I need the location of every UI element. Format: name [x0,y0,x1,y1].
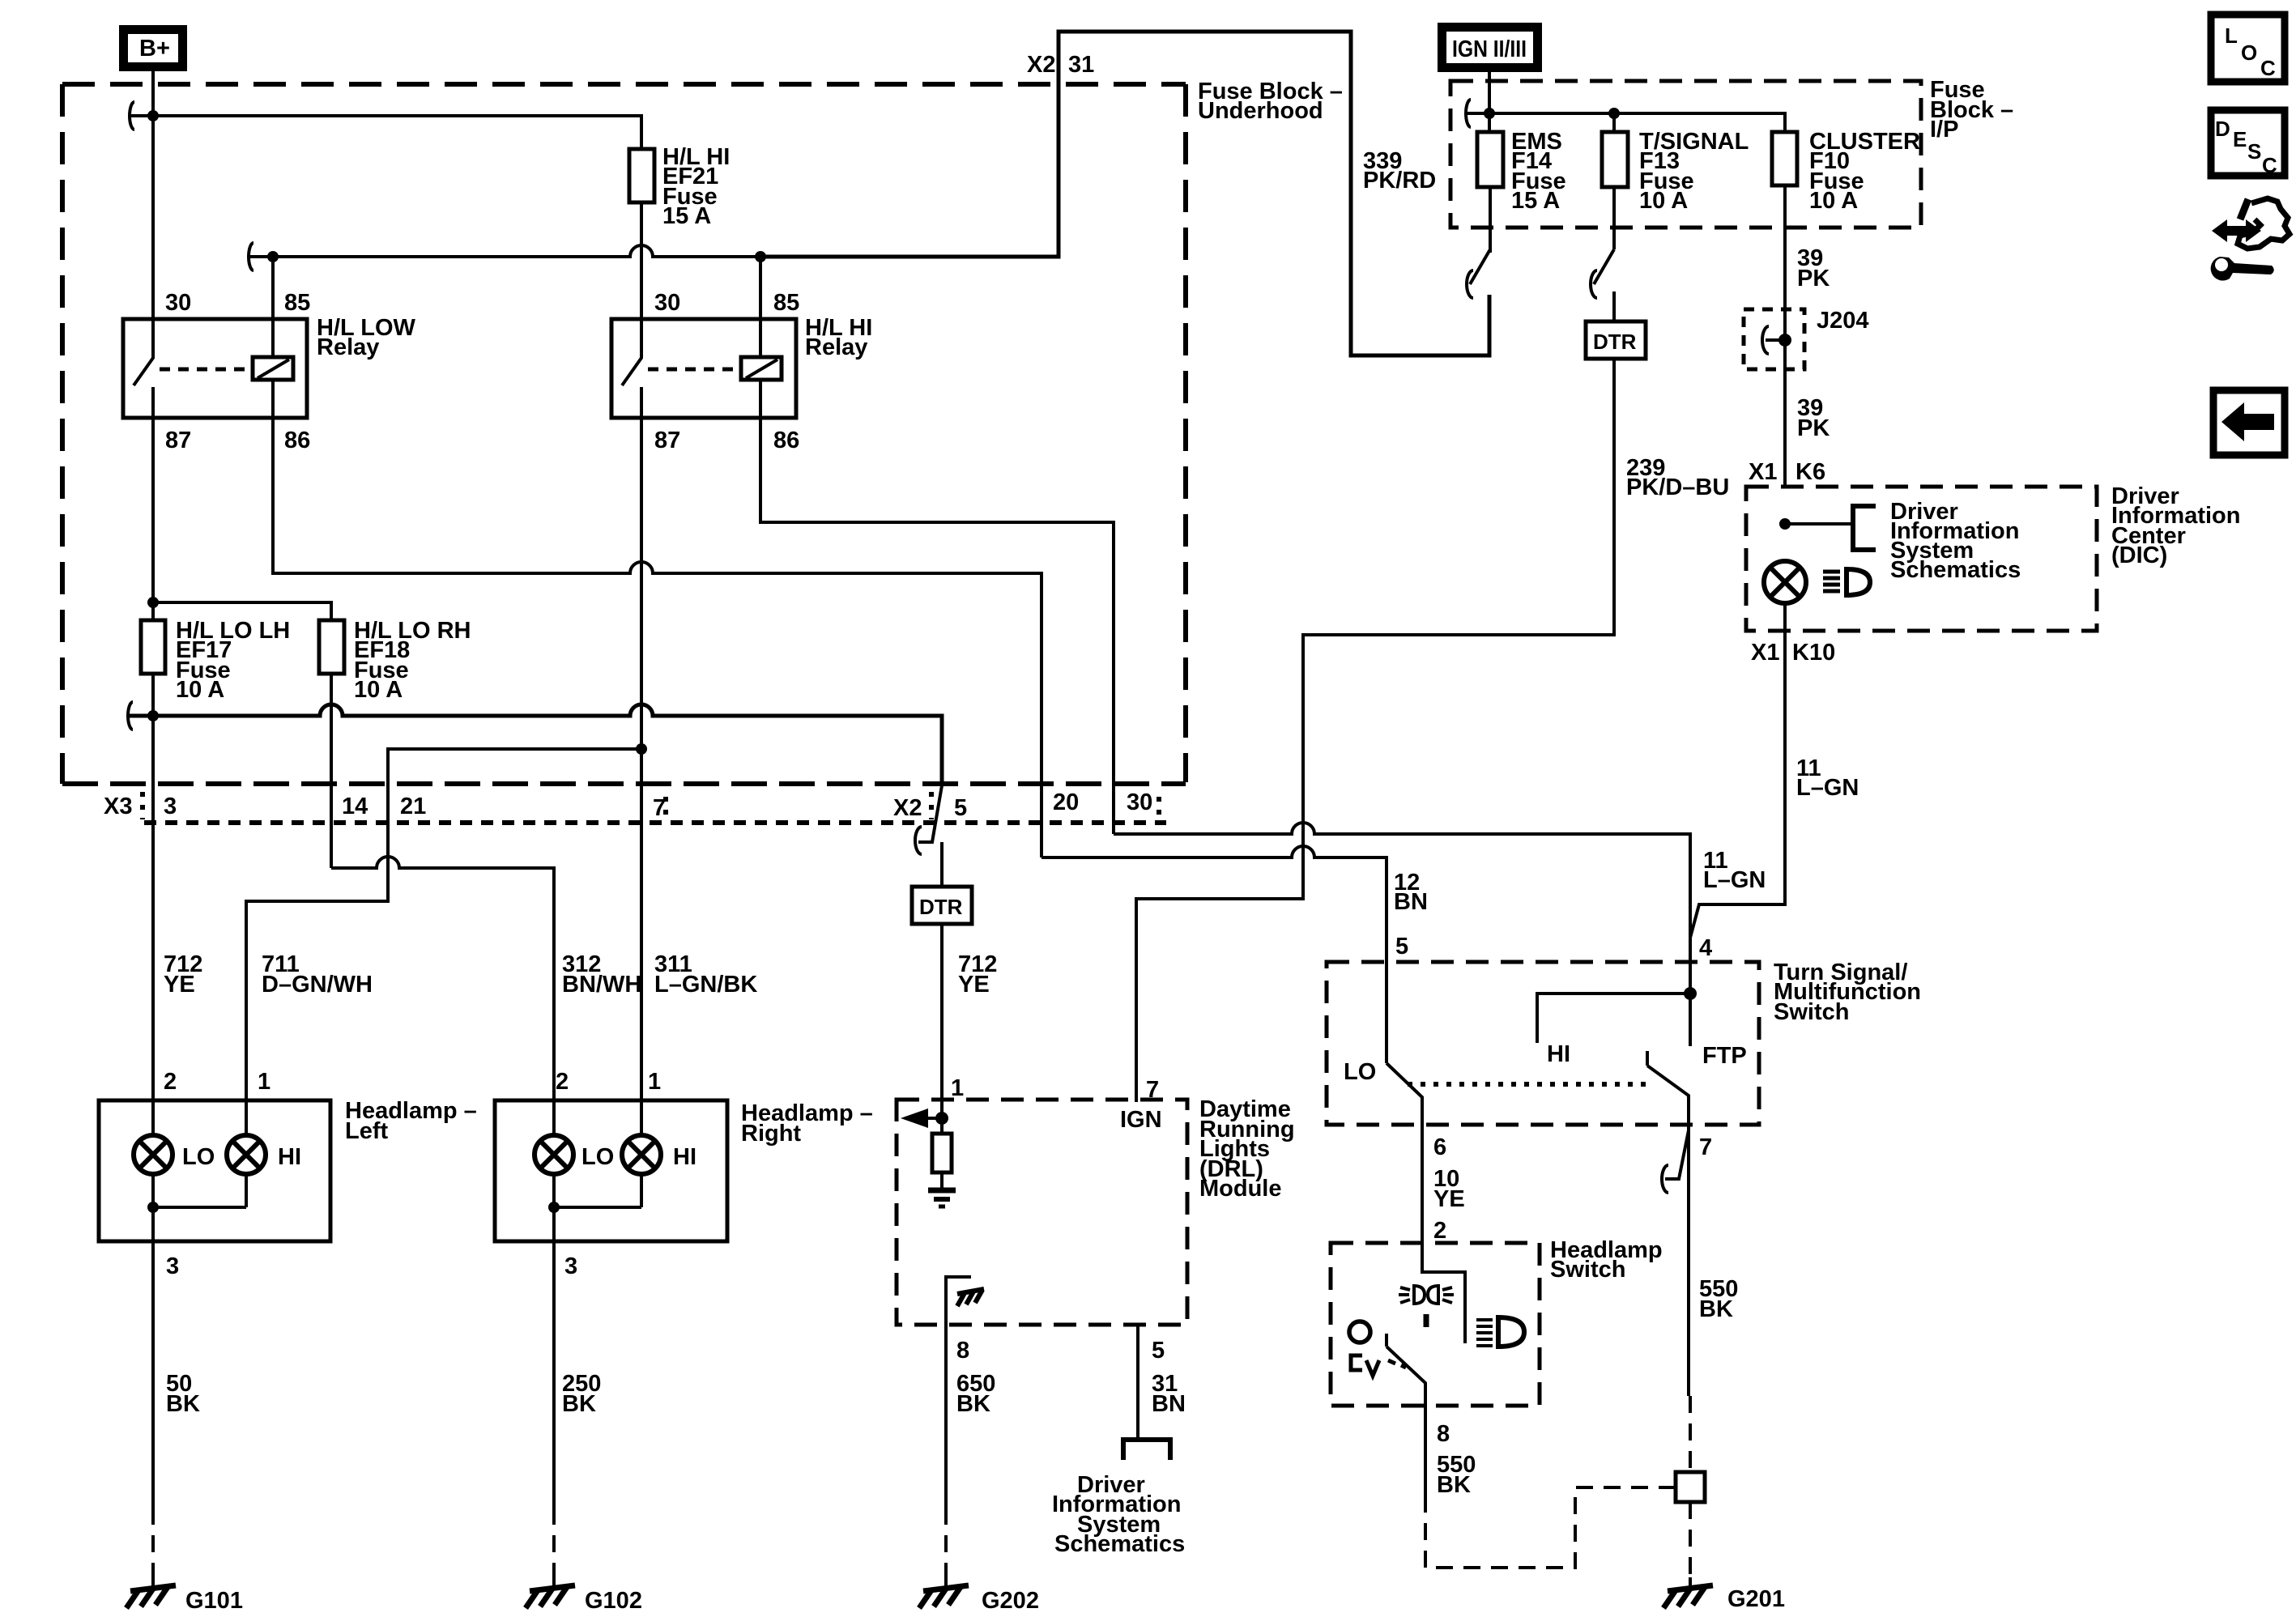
wire 11 L-GN K10 down to turn signal feed [1690,631,1785,938]
svg-text:Schematics: Schematics [1054,1531,1185,1557]
node DIC feed branch [1779,518,1791,530]
mechanical link dashes HL switch [1388,1360,1406,1368]
svg-text:5: 5 [954,795,967,821]
relay H/L LOW coil [253,319,293,418]
wire 250 BK to G102 [552,1207,556,1508]
label relay H/L HI [805,315,872,360]
label relay H/L LOW [317,315,416,360]
dashed wire 550 BK to splice [1425,1487,1676,1568]
relay H/L LOW link dashes [160,368,253,372]
wire headlamp left lamp commons [153,1174,246,1207]
lamp DIC high beam indicator [1764,561,1806,603]
label Turn Signal/Multifunction Switch [1774,960,1921,1025]
fuse F13 [1602,132,1628,187]
svg-text:L–GN: L–GN [1703,867,1766,893]
svg-text:8: 8 [1437,1421,1450,1447]
connector cell separator X3 [140,792,145,819]
dashed wire splice to G201 [1689,1502,1692,1577]
svg-text:86: 86 [284,428,310,453]
label wire 711 D-GN/WH [262,951,373,998]
label X2 row pins [893,789,1152,821]
wire headlamp right lamp commons [554,1174,641,1207]
relay H/L HI switch blade [622,319,641,418]
svg-text:X3: X3 [104,794,132,819]
label connector X1 K10 [1751,640,1835,666]
resistor DRL internal [932,1118,952,1172]
label Headlamp Switch [1550,1237,1663,1283]
wire relay LOW 87 to EF17 [151,418,155,620]
svg-text:87: 87 [654,428,680,453]
svg-text:B+: B+ [139,36,170,62]
svg-text:5: 5 [1395,934,1408,960]
fuse F14 [1477,132,1503,187]
svg-text:PK/D–BU: PK/D–BU [1626,474,1729,500]
ground G201 [1663,1577,1785,1612]
icon DESC button [2211,110,2285,177]
hook connector on IGN bus [1466,100,1471,127]
wire jumper to EF18 [153,602,331,620]
svg-text:5: 5 [1152,1338,1165,1364]
svg-text:14: 14 [342,794,368,819]
node B+ bus junction [147,110,159,121]
relay H/L HI link dashes [648,368,741,372]
svg-text:BK: BK [166,1391,200,1417]
label wire 31 BN [1152,1371,1186,1417]
svg-text:8: 8 [956,1338,969,1364]
node EF17 top jumper [147,597,159,608]
wire F13 output to DTR [1612,187,1616,249]
svg-text:1: 1 [951,1075,964,1101]
label wire 50 BK [166,1371,200,1417]
svg-text:2: 2 [556,1069,569,1095]
wire 50 BK to G101 [151,1207,155,1508]
label wire 550 BK left [1437,1452,1476,1498]
label Driver Information Center (DIC) [2111,483,2241,568]
label fuse EF18 [354,618,471,703]
svg-text:LO: LO [581,1144,614,1170]
svg-text:X1: X1 [1751,640,1779,666]
wire DTR to DRL pin 1 [940,924,944,1121]
svg-text:YE: YE [958,972,990,998]
svg-text:BK: BK [562,1391,596,1417]
svg-text:Switch: Switch [1774,999,1849,1025]
svg-text:X2: X2 [893,795,922,821]
label relay HI pins [654,290,799,453]
svg-text:HI: HI [673,1144,696,1170]
wire HL switch pin 8 550 BK [1424,1406,1427,1496]
wire relay LOW 86 to X2-20 [273,418,1042,857]
svg-text:PK: PK [1797,266,1830,291]
wire DIC branch to DIS bracket [1785,522,1853,526]
DIC dashed box [1746,487,2097,631]
contact O (off position) [1349,1321,1370,1343]
svg-text:10 A: 10 A [176,677,224,703]
label wire 39 PK upper [1797,245,1830,291]
switch blade FTP [1647,1051,1689,1396]
label fuse F13 T/SIGNAL [1639,129,1749,214]
wire HI 87 branch to headlamp left HI [246,749,641,1136]
svg-text:PK: PK [1797,415,1830,441]
label headlamp left pins [164,1069,270,1279]
svg-text:1: 1 [648,1069,661,1095]
B+ power symbol [124,30,183,67]
svg-text:Module: Module [1199,1176,1282,1202]
svg-text:G202: G202 [982,1588,1039,1614]
hook connector on B+ bus [130,102,134,130]
svg-text:IGN: IGN [1120,1107,1162,1133]
connector row upper dashed line [62,781,1186,786]
svg-text:1: 1 [258,1069,270,1095]
svg-text:10 A: 10 A [1809,188,1858,214]
svg-text:3: 3 [564,1253,577,1279]
lamp headlamp right HI [622,1135,696,1174]
svg-text:S: S [2247,139,2261,164]
svg-text:K10: K10 [1792,640,1835,666]
in-line connector jog at X2-5 [915,785,942,854]
ground G101 [126,1577,243,1614]
svg-text:Switch: Switch [1550,1257,1625,1283]
label wire 250 BK [562,1371,601,1417]
svg-text:O: O [2241,40,2257,65]
svg-text:YE: YE [1433,1186,1465,1212]
label fuse EF21 [662,144,730,229]
svg-text:15 A: 15 A [1511,188,1560,214]
label Fuse Block - I/P [1930,77,2013,143]
wire 31 BN off-page [1136,1325,1139,1440]
wire X2-30 to TS switch pin 4 with hop [1114,823,1690,1046]
ground G102 [526,1577,642,1614]
fuse F10 [1772,132,1797,185]
svg-text:BN: BN [1394,889,1428,915]
svg-text:Relay: Relay [317,334,379,360]
svg-text:Left: Left [345,1118,389,1144]
label connector X2 31 [1027,52,1094,78]
svg-text:3: 3 [166,1253,179,1279]
bracket Driver Information System [1853,506,1876,550]
wire 239 PK/D-BU DTR to DRL pin 7 [1136,359,1614,1102]
connector cell separator after 30 [1157,797,1161,823]
wire X2-20 to TS switch pin 5 with hop [1042,846,1387,1063]
svg-text:C: C [2260,56,2276,80]
node HI 87 branch [636,743,647,755]
connector row lower dashed line [144,820,1166,825]
relay H/L HI box [611,319,796,418]
node IGN bus at F13 [1608,108,1620,119]
headlamp right box [495,1100,727,1241]
svg-text:YE: YE [164,972,195,998]
in-line connector jog under F14 [1467,249,1490,298]
DRL module dashed box [897,1100,1187,1325]
splice J204 [1762,311,1791,487]
svg-text:86: 86 [773,428,799,453]
label wire 11 L-GN right [1796,755,1859,801]
svg-text:BN/WH: BN/WH [562,972,641,998]
connector cell separator after 7 [663,797,668,823]
svg-text:10 A: 10 A [1639,188,1688,214]
contact tick parking position [1424,1314,1429,1327]
turn signal / multifunction switch dashed box [1327,962,1759,1125]
wire 650 BK to G202 [944,1325,948,1508]
svg-text:IGN II/III: IGN II/III [1452,36,1527,62]
svg-text:BK: BK [1699,1296,1733,1322]
wire IGN II/III drop [1488,67,1491,132]
wire F10 output [1783,185,1787,311]
wire B+ bus to fuse EF21 [131,116,641,149]
label fuse F10 CLUSTER [1809,129,1920,214]
svg-text:20: 20 [1053,789,1079,815]
svg-text:21: 21 [400,794,426,819]
switch blade HL [1387,1334,1425,1406]
svg-text:L–GN/BK: L–GN/BK [654,972,757,998]
DTR box (T/SIGNAL) [1586,321,1646,359]
svg-text:BK: BK [1437,1472,1471,1498]
label Daytime Running Lights (DRL) Module [1199,1096,1295,1202]
label wire 712 YE (center) [958,951,997,998]
svg-text:87: 87 [165,428,191,453]
label Driver Information System Schematics (DIC) [1890,499,2021,583]
svg-text:2: 2 [164,1069,177,1095]
hook connector on relay coil bus [249,243,253,270]
node headlamp right common [548,1202,560,1213]
label Driver Information System Schematics (bottom) [1052,1472,1185,1557]
label wire 712 YE (left) [164,951,202,998]
icon back arrow button [2213,390,2285,455]
label wire 650 BK [956,1371,995,1417]
svg-text:LO: LO [182,1144,215,1170]
arrow DRL internal [901,1108,942,1128]
svg-text:31: 31 [1068,52,1094,78]
svg-text:E: E [2233,127,2247,151]
in-line connector jog under F13 [1591,249,1614,298]
mechanical link dotted [1408,1082,1651,1087]
fuse block underhood dashed box [62,84,1186,784]
node DRL pin 1 internal [935,1112,948,1125]
svg-text:L–GN: L–GN [1796,775,1859,801]
wire TS LO output to headlamp switch pin 2 [1422,1125,1465,1343]
svg-text:PK/RD: PK/RD [1363,168,1436,194]
ground G202 [919,1577,1039,1614]
wire EF21 to relay HI 30 [640,202,643,319]
wire X2-5 to DTR [940,842,944,887]
wire LOW 85 drop [271,257,275,319]
switch blade LO [1387,1063,1422,1125]
node headlamp left common [147,1202,159,1213]
svg-text:Right: Right [741,1121,801,1147]
svg-text:G201: G201 [1727,1586,1785,1612]
label wire 239 PK/D-BU [1626,455,1729,500]
svg-text:2: 2 [1433,1218,1446,1244]
svg-text:X2: X2 [1027,52,1055,78]
svg-text:HI: HI [1547,1041,1570,1067]
node IGN bus at F14 [1484,108,1495,119]
svg-text:G102: G102 [585,1588,642,1614]
svg-text:Relay: Relay [805,334,867,360]
svg-text:7: 7 [1699,1134,1712,1160]
wire F14 output [1489,187,1492,253]
svg-text:15 A: 15 A [662,203,711,229]
headlamp switch dashed box [1331,1243,1540,1406]
wire EF18 out across to headlamp right LO with hop over 711 wire [331,857,554,1136]
label wire 11 L-GN left [1703,848,1766,893]
in-line connector jog on 550 BK [1662,1130,1689,1193]
icon DIC headlamp symbol [1823,569,1870,595]
lamp headlamp left HI [227,1135,301,1174]
label wire 39 PK lower [1797,395,1830,441]
label wire 550 BK right [1699,1276,1738,1322]
svg-text:Underhood: Underhood [1198,98,1323,124]
wire IGN bus to F13 and F10 [1467,113,1785,132]
svg-text:LO: LO [1344,1059,1376,1085]
svg-text:Schematics: Schematics [1890,557,2021,583]
label headlamp right pins [556,1069,661,1279]
svg-text:DTR: DTR [919,895,963,919]
relay H/L LOW box [123,319,307,418]
node EF17 out tap [147,710,159,721]
label connector X1 K6 [1749,459,1825,485]
wire relay HI 86 to X2-30 [760,418,1114,834]
svg-text:FTP: FTP [1702,1043,1747,1069]
svg-text:DTR: DTR [1593,330,1637,354]
node pin4 feed [1684,987,1697,1000]
label wire 12 BN [1394,870,1428,915]
label wire 10 YE [1433,1166,1465,1212]
label headlamp left [345,1098,477,1144]
node relay HI 85 tap [755,251,766,262]
wire DIC lamp to K10 [1783,603,1787,631]
label X3 row pins [104,794,666,821]
svg-text:3: 3 [164,794,177,819]
svg-text:30: 30 [1127,789,1152,815]
svg-text:I/P: I/P [1930,117,1958,143]
svg-text:6: 6 [1433,1134,1446,1160]
svg-text:D–GN/WH: D–GN/WH [262,972,373,998]
fuse EF21 [629,149,654,202]
wire F13 drop [1612,113,1616,132]
svg-text:30: 30 [654,290,680,316]
label headlamp right [741,1100,873,1147]
svg-text:L: L [2225,23,2238,48]
icon parking lamps [1399,1286,1454,1304]
label wire 311 L-GN/BK [654,951,757,998]
svg-text:D: D [2215,117,2230,141]
icon panel dim [1351,1355,1379,1376]
svg-text:7: 7 [653,795,666,821]
wire EF17 out bus to X2-5 with hops [130,704,942,784]
icon hand with wrench [2211,198,2290,281]
svg-text:BN: BN [1152,1391,1186,1417]
fuse EF17 [141,620,165,674]
bracket off-page DIS [1123,1440,1170,1460]
svg-text:HI: HI [278,1144,301,1170]
wire HI 85 drop [759,257,762,319]
svg-text:85: 85 [773,290,799,316]
svg-text:BK: BK [956,1391,990,1417]
svg-text:J204: J204 [1817,308,1869,334]
svg-text:(DIC): (DIC) [2111,543,2167,568]
relay H/L HI coil [741,319,782,418]
label fuse EF17 [176,618,290,703]
hook connector on EF17 out bus [128,702,133,730]
label Fuse Block - Underhood [1198,79,1343,124]
svg-text:G101: G101 [185,1588,243,1614]
ground DRL internal (signal) [928,1172,956,1206]
lamp headlamp left LO [134,1135,215,1174]
wire EF17 out to headlamp left LO [151,674,155,1136]
wire relay coil bus (85 bus) with hop over EF21 wire [250,245,760,257]
IGN II/III power symbol [1442,28,1538,68]
wire relay HI 87 to headlamp right HI [640,418,643,1136]
relay H/L LOW switch blade [134,319,153,418]
node relay LOW 85 tap [267,251,279,262]
svg-text:7: 7 [1146,1077,1159,1103]
svg-text:X1: X1 [1749,459,1777,485]
fuse block I/P dashed box [1450,81,1921,228]
svg-text:30: 30 [165,290,191,316]
splice square [1676,1472,1705,1502]
label relay LOW pins [165,290,310,453]
splice J204 dashed box [1744,309,1804,369]
label wire 339 PK/RD [1363,148,1436,194]
DTR box (DRL feed) [912,887,972,924]
wire EF18 out to X3-14 [330,674,333,868]
dashed wire to splice square [1689,1396,1692,1472]
fuse EF18 [319,620,344,674]
wire B+ drop to relay 30 [151,71,155,319]
svg-text:85: 85 [284,290,310,316]
svg-text:4: 4 [1699,935,1712,961]
svg-text:10 A: 10 A [354,677,403,703]
label wire 312 BN/WH [562,951,641,998]
svg-text:C: C [2262,153,2277,177]
svg-text:K6: K6 [1795,459,1825,485]
wire HI contact stub [1537,994,1690,1043]
icon LOC button [2211,15,2285,82]
headlamp left box [99,1100,330,1241]
connector cell separator X2 [929,792,934,819]
ground DRL internal pin 8 (chassis) [946,1277,984,1325]
icon headlamps on [1476,1317,1524,1347]
label fuse F14 EMS [1511,129,1566,214]
lamp headlamp right LO [535,1135,614,1174]
